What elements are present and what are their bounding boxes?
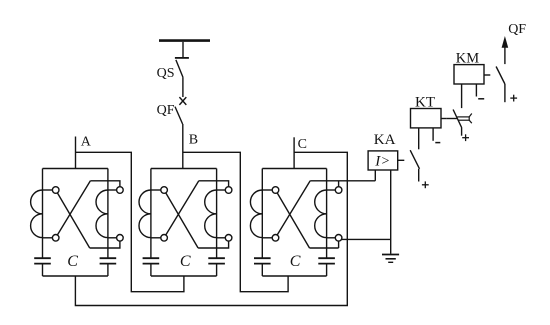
wire phase C to right drop and bottom bus (75, 152, 347, 305)
svg-text:KM: KM (456, 50, 479, 66)
svg-text:A: A (81, 135, 92, 150)
winding W2 right arm of unit C (315, 169, 339, 259)
ground (382, 255, 399, 263)
capacitor unit A input wire (74, 168, 76, 170)
svg-text:C: C (290, 253, 301, 270)
current relay KA coil box (368, 151, 398, 170)
contact KA (upper wire) (418, 128, 420, 149)
KT coil right stub (441, 118, 447, 120)
node A stub wire (75, 137, 77, 169)
terminal circles of unit B (161, 187, 232, 241)
svg-text:B: B (189, 133, 198, 148)
capacitor unit A output wire (74, 275, 76, 277)
svg-text:KA: KA (374, 132, 396, 148)
svg-text:QS: QS (157, 66, 175, 81)
svg-text:QF: QF (508, 22, 526, 37)
capacitor unit C output wire (293, 275, 295, 277)
busbar (159, 39, 210, 42)
KM coil right stub (484, 74, 490, 76)
contactor KM coil box (454, 65, 484, 84)
cross connection wires of unit A (56, 181, 120, 248)
wire QF to node B (182, 124, 184, 169)
terminal circles of unit C (272, 187, 342, 241)
breaker QF cross mark (179, 97, 186, 105)
contact KT blade (453, 110, 462, 128)
label + at KA contact (422, 184, 429, 186)
capacitor unit B output wire (183, 275, 185, 277)
breaker QF blade (175, 107, 183, 124)
capacitor unit C input wire (293, 168, 295, 170)
capacitor C left of unit C (254, 258, 271, 276)
winding W1 left arm of unit B (139, 169, 164, 259)
KM coil minus pin (475, 84, 477, 97)
capacitor C left of unit A (34, 258, 51, 276)
label minus at KM (478, 98, 484, 100)
svg-text:KT: KT (415, 95, 435, 111)
wire KM contact to arrow (504, 47, 506, 64)
contact KT lower wire (461, 128, 463, 136)
contact KT (upper wire) (461, 84, 463, 108)
capacitor unit A enclosure bottom edge (43, 275, 108, 277)
KA coil right stub (398, 159, 405, 161)
contact KM blade (496, 67, 505, 85)
contact KM lower wire (504, 84, 506, 102)
winding W2 right arm of unit B (205, 169, 229, 259)
cross connection wires of unit C (276, 170, 391, 248)
capacitor C right of unit B (208, 258, 225, 276)
capacitor unit B input wire (183, 168, 185, 170)
KT coil minus pin (432, 128, 434, 141)
terminal circles of unit A (52, 187, 123, 241)
svg-text:QF: QF (157, 103, 175, 118)
svg-text:C: C (298, 137, 307, 152)
KA coil pin to ground wire (390, 170, 392, 254)
svg-text:C: C (67, 253, 78, 270)
disconnector QS (175, 58, 189, 77)
capacitor unit A enclosure top edge (43, 168, 108, 170)
capacitor unit C enclosure bottom edge (262, 275, 326, 277)
contact KT delay symbol (447, 114, 472, 124)
wire phase A to right drop (76, 152, 184, 291)
wire phase B to right drop (183, 152, 288, 291)
svg-text:I: I (374, 154, 381, 170)
wire busbar drop (182, 42, 184, 58)
cross connection wires of unit B (164, 181, 229, 248)
node C stub wire (293, 137, 295, 168)
capacitor unit B enclosure bottom edge (151, 275, 217, 277)
time relay KT coil box (411, 109, 442, 128)
winding W1 left arm of unit A (31, 169, 56, 259)
svg-text:C: C (180, 253, 191, 270)
winding W2 right arm of unit A (96, 169, 120, 259)
wire QS to QF (182, 77, 184, 97)
capacitor unit B enclosure top edge (151, 168, 217, 170)
contact KA lower wire (418, 169, 420, 182)
svg-text:>: > (382, 154, 390, 169)
winding W1 left arm of unit C (250, 169, 275, 259)
capacitor C right of unit A (100, 258, 117, 276)
label minus at KT (435, 142, 440, 144)
contact KA blade (410, 150, 419, 169)
capacitor C left of unit B (143, 258, 160, 276)
label + at KT contact (462, 137, 469, 139)
capacitor unit C enclosure top edge (262, 168, 326, 170)
arrow head to QF (502, 36, 509, 48)
capacitor C right of unit C (318, 258, 335, 276)
label + at KM contact (510, 97, 517, 99)
